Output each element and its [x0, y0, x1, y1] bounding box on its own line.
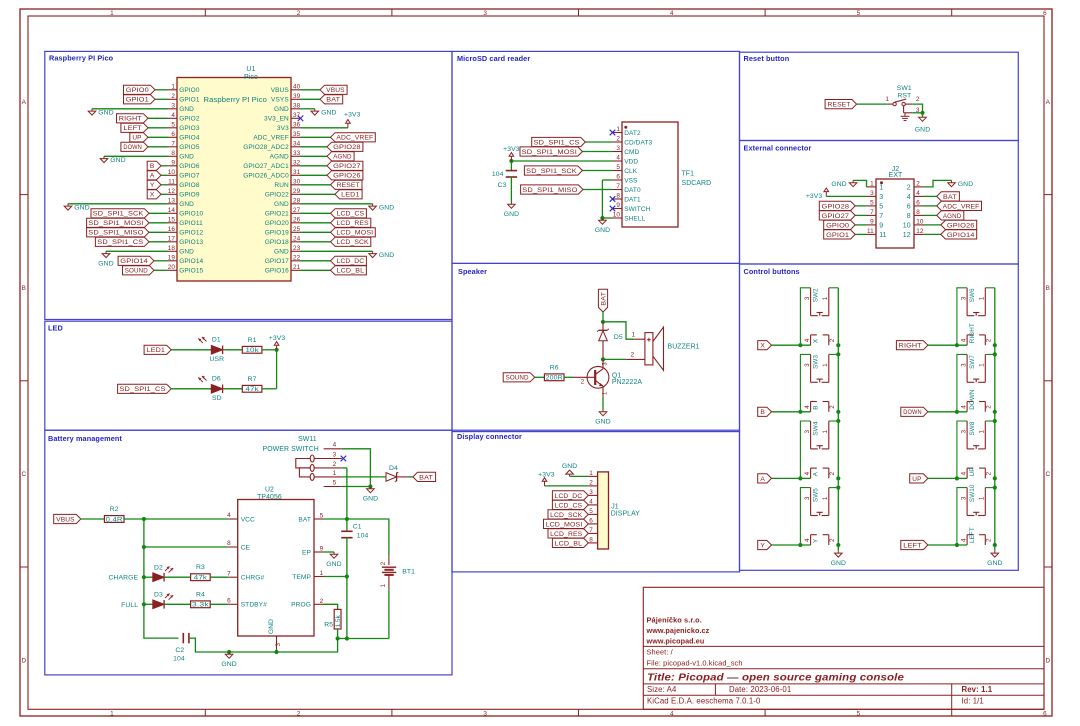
SW2 pin 1 number: [822, 296, 829, 300]
svg-text:D6: D6: [212, 376, 221, 383]
switch SW4 (A button): [800, 421, 838, 478]
svg-text:DISPLAY: DISPLAY: [611, 511, 641, 518]
svg-text:2: 2: [297, 10, 301, 17]
svg-text:GPIO3: GPIO3: [179, 125, 200, 132]
wire X to SW2: [772, 344, 811, 346]
svg-text:KiCad E.D.A. eeschema 7.0.1-0: KiCad E.D.A. eeschema 7.0.1-0: [647, 696, 761, 705]
svg-text:Control buttons: Control buttons: [744, 267, 800, 276]
svg-text:Size: A4: Size: A4: [647, 685, 677, 694]
SW5 net name Y: [813, 538, 820, 543]
svg-text:35: 35: [293, 131, 301, 138]
SW2 net name X: [813, 338, 820, 343]
wire R6 to Q1: [564, 376, 573, 378]
title block outline: [643, 587, 1044, 709]
ground GND: [369, 204, 395, 212]
svg-text:SHELL: SHELL: [624, 215, 645, 222]
svg-text:7: 7: [171, 141, 175, 148]
wire: [301, 155, 328, 157]
SW6 pin 3 number: [960, 296, 967, 300]
svg-text:FULL: FULL: [121, 602, 138, 609]
SW1 reference: [897, 85, 912, 92]
svg-text:B: B: [22, 285, 26, 292]
svg-text:34: 34: [293, 141, 301, 148]
svg-text:3: 3: [960, 430, 967, 434]
net label GPIO1: [824, 230, 856, 239]
J2 pin 11: [867, 228, 887, 239]
net label RESET: [825, 100, 857, 109]
svg-text:ADC_VREF: ADC_VREF: [336, 135, 373, 142]
svg-text:6: 6: [171, 131, 175, 138]
svg-text:R7: R7: [248, 376, 257, 383]
ground GND SW1: [915, 117, 930, 133]
svg-text:GPIO9: GPIO9: [179, 192, 200, 199]
svg-text:SW1: SW1: [897, 85, 912, 92]
svg-text:DAT1: DAT1: [624, 196, 641, 203]
svg-text:4: 4: [333, 442, 337, 449]
svg-text:2: 2: [589, 480, 593, 487]
wire TEMP to GND net: [324, 576, 347, 578]
svg-text:11: 11: [879, 232, 886, 239]
svg-text:4: 4: [804, 405, 811, 409]
svg-text:PROG: PROG: [291, 602, 311, 609]
svg-text:GPIO28: GPIO28: [333, 144, 361, 151]
J2 pin 10: [903, 219, 924, 230]
section box LED: [45, 321, 452, 430]
J2 pin 2: [907, 181, 924, 192]
svg-text:GPIO27_ADC1: GPIO27_ADC1: [243, 163, 289, 170]
wire SW11 pin1 to D4: [342, 476, 386, 478]
svg-text:C: C: [1045, 471, 1050, 478]
wire B to SW3: [772, 411, 811, 413]
D4 reference: [389, 465, 398, 472]
SW10 pin 1 number: [979, 496, 986, 500]
svg-text:1: 1: [589, 470, 593, 477]
wire BAT down: [602, 312, 604, 322]
junction: [955, 476, 959, 480]
no-connect pin37 3V3_EN: [298, 116, 304, 122]
svg-text:+3V3: +3V3: [344, 112, 361, 119]
U1 pin 19 (GPIO14): [168, 255, 204, 266]
title block id: [962, 696, 984, 705]
svg-text:SD_SPI1_MISO: SD_SPI1_MISO: [522, 187, 577, 194]
SW3 pin 3 number: [804, 363, 811, 367]
no-connect TF1 DAT1: [610, 196, 616, 202]
svg-text:GPIO18: GPIO18: [265, 239, 289, 246]
wire +3V3 down to R7: [276, 350, 278, 389]
svg-text:R6: R6: [550, 364, 559, 371]
resistor R6 200R: [544, 364, 564, 381]
svg-text:DAT0: DAT0: [624, 187, 641, 194]
wire R3 to CHRG#: [210, 576, 228, 578]
wire SW1 pin3: [912, 112, 922, 114]
buzzer BUZZER1: [626, 327, 663, 370]
junction: [955, 410, 959, 414]
svg-text:8: 8: [907, 213, 911, 220]
section box Display connector: [452, 432, 740, 572]
wire LEFT to SW10: [928, 544, 967, 546]
net label SOUND: [123, 266, 155, 275]
svg-text:LCD_CS: LCD_CS: [555, 502, 583, 509]
svg-text:LED1: LED1: [147, 347, 166, 354]
U2 pin 7 (CHRG#): [227, 570, 264, 581]
net label SD_SPI1_MOSI: [520, 147, 582, 156]
junction: [274, 650, 278, 654]
svg-text:C2: C2: [175, 647, 184, 654]
net label GPIO28: [819, 201, 855, 210]
svg-text:1: 1: [822, 296, 829, 300]
wire: [155, 98, 168, 100]
Q1 pin 1 number: [603, 391, 609, 395]
wire SW11 pin2 to BAT+: [342, 467, 347, 469]
svg-text:12: 12: [903, 232, 911, 239]
net label CHARGE: [109, 575, 139, 582]
net label UP: [130, 133, 148, 142]
SW11 pin 3: [314, 451, 342, 458]
D5 reference: [614, 334, 623, 341]
ground GND speaker: [595, 410, 610, 426]
svg-text:CE: CE: [241, 544, 251, 551]
svg-text:10: 10: [613, 212, 621, 219]
SW8 pin 4 number: [960, 471, 967, 475]
U1 pin 32 (GPIO27_ADC1): [243, 160, 300, 171]
wire GND pin8: [104, 155, 168, 157]
C3 value 104: [492, 171, 504, 178]
svg-text:GPIO2: GPIO2: [179, 116, 200, 123]
junction: [142, 545, 146, 549]
svg-text:GPIO14: GPIO14: [120, 258, 148, 265]
no-connect TF1 SWITCH: [610, 206, 616, 212]
junction: [955, 543, 959, 547]
svg-text:GND: GND: [379, 252, 394, 259]
U1 pin 4 (GPIO2): [168, 112, 200, 123]
TF1 pin 9 (SWITCH): [613, 202, 651, 213]
wire: [301, 165, 328, 167]
svg-text:VBUS: VBUS: [326, 87, 345, 94]
svg-text:30: 30: [293, 179, 301, 186]
svg-text:GND: GND: [595, 419, 610, 426]
wire: [855, 205, 866, 207]
svg-text:28: 28: [293, 198, 301, 205]
D2 emission arrows: [165, 566, 173, 572]
svg-text:SD_SPI1_CS: SD_SPI1_CS: [97, 239, 144, 246]
svg-text:GPIO1: GPIO1: [179, 97, 200, 104]
SW4 pin 2 number: [829, 471, 836, 475]
svg-text:4: 4: [960, 405, 967, 409]
U2 pin 8 (CE): [227, 540, 250, 551]
svg-text:R5: R5: [324, 621, 333, 628]
battery BT1: [382, 556, 396, 589]
TF1 pin 3 (CMD): [613, 145, 640, 156]
svg-text:GPIO14: GPIO14: [947, 232, 975, 239]
diode D5: [597, 322, 609, 360]
svg-text:22: 22: [293, 255, 301, 262]
net label LED1: [144, 345, 171, 354]
svg-text:GPIO0: GPIO0: [179, 87, 200, 94]
svg-text:A: A: [22, 99, 27, 106]
svg-text:RIGHT: RIGHT: [119, 116, 142, 123]
svg-text:GPIO28_ADC2: GPIO28_ADC2: [243, 144, 289, 151]
svg-text:SW10: SW10: [969, 484, 976, 502]
wire C3 to GND: [510, 177, 512, 202]
TF1 pin 1 (DAT2): [613, 126, 642, 137]
wire D5 to buzzer pin2: [603, 358, 626, 360]
net label RIGHT: [117, 114, 149, 123]
svg-text:GPIO11: GPIO11: [179, 220, 203, 227]
svg-text:4: 4: [171, 112, 175, 119]
U1 pin 24 (GPIO18): [265, 236, 301, 247]
svg-text:SD_SPI1_CS: SD_SPI1_CS: [120, 386, 167, 393]
svg-text:20: 20: [168, 264, 176, 271]
svg-text:9: 9: [870, 219, 874, 226]
net label LCD_CS: [552, 500, 588, 509]
junction: [345, 574, 349, 578]
svg-text:18: 18: [168, 245, 176, 252]
svg-text:GND: GND: [179, 154, 194, 161]
svg-text:39: 39: [293, 93, 301, 100]
SW7 pin 1 number: [979, 363, 986, 367]
wire EP: [324, 551, 335, 553]
svg-text:5: 5: [857, 10, 861, 17]
SW3 pin 1 number: [822, 363, 829, 367]
wire +3V3 to C3: [510, 161, 512, 171]
BUZZER1 pin 2 number: [631, 352, 635, 359]
svg-text:GPIO19: GPIO19: [265, 230, 289, 237]
net label LEFT: [121, 123, 148, 132]
net label X: [758, 341, 772, 350]
power symbol +3V3 SD card: [503, 146, 520, 161]
wire SOUND to R6: [535, 376, 545, 378]
net label GPIO1: [124, 95, 156, 104]
svg-text:POWER SWITCH: POWER SWITCH: [263, 446, 319, 453]
wire: [582, 170, 612, 172]
SW7 pin 4 number: [960, 405, 967, 409]
no-connect SW11 pin3: [341, 456, 347, 462]
J1 pin 1: [588, 470, 598, 477]
wire: [154, 269, 168, 271]
net label AGND: [937, 211, 964, 220]
J2 pin 1: [867, 181, 884, 192]
switch SW11 body: [296, 455, 314, 480]
net label BAT: [413, 472, 436, 481]
net label LED1: [335, 190, 362, 199]
resistor R5 1.5k: [324, 609, 341, 629]
svg-text:RIGHT: RIGHT: [969, 323, 976, 343]
svg-text:3: 3: [483, 711, 487, 718]
wire: [301, 260, 331, 262]
SW4 net name A: [813, 471, 820, 476]
SW7 net name DOWN: [969, 389, 976, 410]
earth chassis symbol SW1: [901, 113, 910, 121]
svg-text:6: 6: [907, 204, 911, 211]
BT1 reference: [402, 569, 415, 576]
svg-text:7: 7: [589, 527, 593, 534]
junction: [142, 575, 146, 579]
U1 pin 1 (GPIO0): [168, 84, 200, 95]
svg-text:GPIO6: GPIO6: [179, 163, 200, 170]
wire R2 to VCC: [124, 518, 228, 520]
svg-text:8: 8: [589, 537, 593, 544]
U1 pin 28 (GND): [274, 198, 301, 209]
net label A: [147, 171, 161, 180]
svg-text:4: 4: [670, 711, 674, 718]
junction: [368, 484, 372, 488]
TF1 value SDCARD: [682, 180, 712, 187]
svg-text:9: 9: [320, 546, 324, 553]
U1 pin 25 (GPIO19): [265, 226, 301, 237]
svg-text:GND: GND: [562, 463, 577, 470]
net label GPIO26: [941, 220, 977, 229]
svg-text:CMD: CMD: [624, 149, 639, 156]
svg-text:Speaker: Speaker: [458, 267, 487, 276]
wire: [161, 165, 168, 167]
svg-text:Y: Y: [760, 542, 765, 549]
U1 pin 18 (GND): [168, 245, 195, 256]
wire: [924, 224, 941, 226]
wire: [585, 141, 612, 143]
IC U1 Raspberry Pi Pico body: [177, 78, 291, 282]
wire PROG to R5: [324, 604, 338, 609]
TF1 pin 2 (CD/DAT3): [613, 136, 653, 147]
switch SW10 (LEFT button): [957, 488, 995, 545]
SW4 pin 3 number: [804, 430, 811, 434]
svg-text:2: 2: [297, 711, 301, 718]
svg-text:29: 29: [293, 188, 301, 195]
svg-text:Rev: 1.1: Rev: 1.1: [962, 685, 993, 694]
power symbol +3V3 J2: [806, 188, 829, 200]
U1 pin 39 (VSYS): [271, 93, 301, 104]
svg-text:SW6: SW6: [969, 288, 976, 302]
svg-text:SDCARD: SDCARD: [682, 180, 712, 187]
diode D3 FULL LED: [153, 600, 164, 609]
net label GPIO27: [819, 211, 855, 220]
svg-text:SOUND: SOUND: [506, 375, 529, 382]
svg-text:3: 3: [171, 103, 175, 110]
svg-text:LCD_BL: LCD_BL: [337, 268, 365, 275]
SW3 reference: [812, 355, 819, 369]
svg-text:Pico: Pico: [244, 74, 258, 81]
svg-text:B: B: [813, 405, 820, 409]
wire SD_SPI1_CS to D6: [171, 388, 211, 390]
svg-text:GPIO27: GPIO27: [822, 213, 850, 220]
section box External connector: [740, 141, 1019, 265]
C3 reference: [498, 182, 507, 189]
section box MicroSD card reader: [452, 51, 740, 263]
net label DOWN: [901, 407, 928, 416]
J1 reference: [611, 504, 619, 511]
SW4 pin 4 number: [804, 471, 811, 475]
svg-text:1: 1: [822, 430, 829, 434]
svg-text:SOUND: SOUND: [125, 268, 148, 275]
svg-text:LCD_MOSI: LCD_MOSI: [546, 521, 583, 528]
net label LCD_SCK: [331, 237, 371, 246]
svg-text:2: 2: [829, 471, 836, 475]
D1 emission arrows: [198, 337, 206, 343]
svg-text:4: 4: [960, 538, 967, 542]
svg-text:2: 2: [829, 338, 836, 342]
svg-text:104: 104: [492, 171, 504, 178]
svg-text:GPIO20: GPIO20: [265, 220, 289, 227]
svg-text:AGND: AGND: [943, 213, 962, 220]
junction: [509, 159, 513, 163]
net label BAT speaker: [598, 289, 607, 312]
U1 pin 36 (3V3): [277, 122, 301, 133]
U1 pin 37 (3V3_EN): [264, 112, 301, 123]
svg-text:GND: GND: [274, 249, 289, 256]
U1 pin 7 (GPIO5): [168, 141, 200, 152]
J1 pin 7: [588, 527, 598, 534]
SW11 pin 2: [314, 461, 342, 468]
U1 pin 13 (GND): [168, 198, 195, 209]
U1 pin 26 (GPIO20): [265, 217, 301, 228]
SW6 pin 4 number: [960, 338, 967, 342]
svg-text:GND: GND: [363, 496, 378, 503]
SW11 pin 4: [324, 442, 342, 449]
svg-text:200R: 200R: [546, 375, 563, 382]
capacitor C3 104: [506, 171, 517, 177]
section box Reset button: [740, 52, 1019, 140]
svg-text:VCC: VCC: [241, 516, 255, 523]
svg-text:24: 24: [293, 236, 301, 243]
svg-text:1: 1: [333, 470, 337, 477]
wire: [301, 212, 331, 214]
U1 pin 6 (GPIO4): [168, 131, 200, 142]
junction: [993, 352, 997, 356]
wire CHARGE to D2: [144, 576, 153, 578]
svg-text:26: 26: [293, 217, 301, 224]
junction: [798, 476, 802, 480]
svg-text:U2: U2: [265, 486, 274, 493]
Q1 pin 2 number: [581, 378, 585, 385]
wire SHELL: [602, 217, 612, 219]
svg-text:D: D: [21, 657, 26, 664]
junction: [227, 650, 231, 654]
svg-text:SD_SPI1_SCK: SD_SPI1_SCK: [93, 211, 144, 218]
U1 pin 34 (GPIO28_ADC2): [243, 141, 300, 152]
svg-text:SD_SPI1_MOSI: SD_SPI1_MOSI: [88, 220, 143, 227]
svg-text:21: 21: [293, 264, 301, 271]
SW1 pin 3 number: [916, 107, 920, 114]
svg-text:EP: EP: [302, 549, 311, 556]
svg-text:A: A: [150, 173, 155, 180]
net label SOUND: [503, 373, 535, 382]
J2 pin 6: [907, 200, 924, 211]
svg-text:RESET: RESET: [828, 102, 851, 109]
svg-text:7: 7: [616, 183, 620, 190]
net label B: [758, 407, 772, 416]
svg-text:GND: GND: [326, 561, 341, 568]
junction: [993, 476, 997, 480]
svg-text:VSYS: VSYS: [271, 97, 289, 104]
net label SD_SPI1_CS: [95, 237, 149, 246]
wire: [855, 233, 866, 235]
U1 pin 21 (GPIO16): [265, 264, 301, 275]
svg-text:GPIO26: GPIO26: [333, 173, 361, 180]
SW11 pin 1: [314, 470, 342, 477]
net label GPIO0: [124, 85, 156, 94]
svg-text:LCD_DC: LCD_DC: [337, 258, 365, 265]
U1 field Raspberry PI Pico: [204, 97, 268, 104]
svg-text:X: X: [150, 192, 155, 199]
svg-text:D5: D5: [614, 334, 623, 341]
SW8 reference: [969, 421, 976, 435]
svg-text:CHARGE: CHARGE: [109, 575, 139, 582]
svg-text:4: 4: [670, 10, 674, 17]
U1 pin 31 (GPIO26_ADC0): [243, 169, 300, 180]
svg-text:DOWN: DOWN: [969, 389, 976, 410]
net label SD_SPI1_MISO: [521, 185, 583, 194]
SW6 reference: [969, 288, 976, 302]
svg-text:EXT: EXT: [889, 172, 903, 179]
